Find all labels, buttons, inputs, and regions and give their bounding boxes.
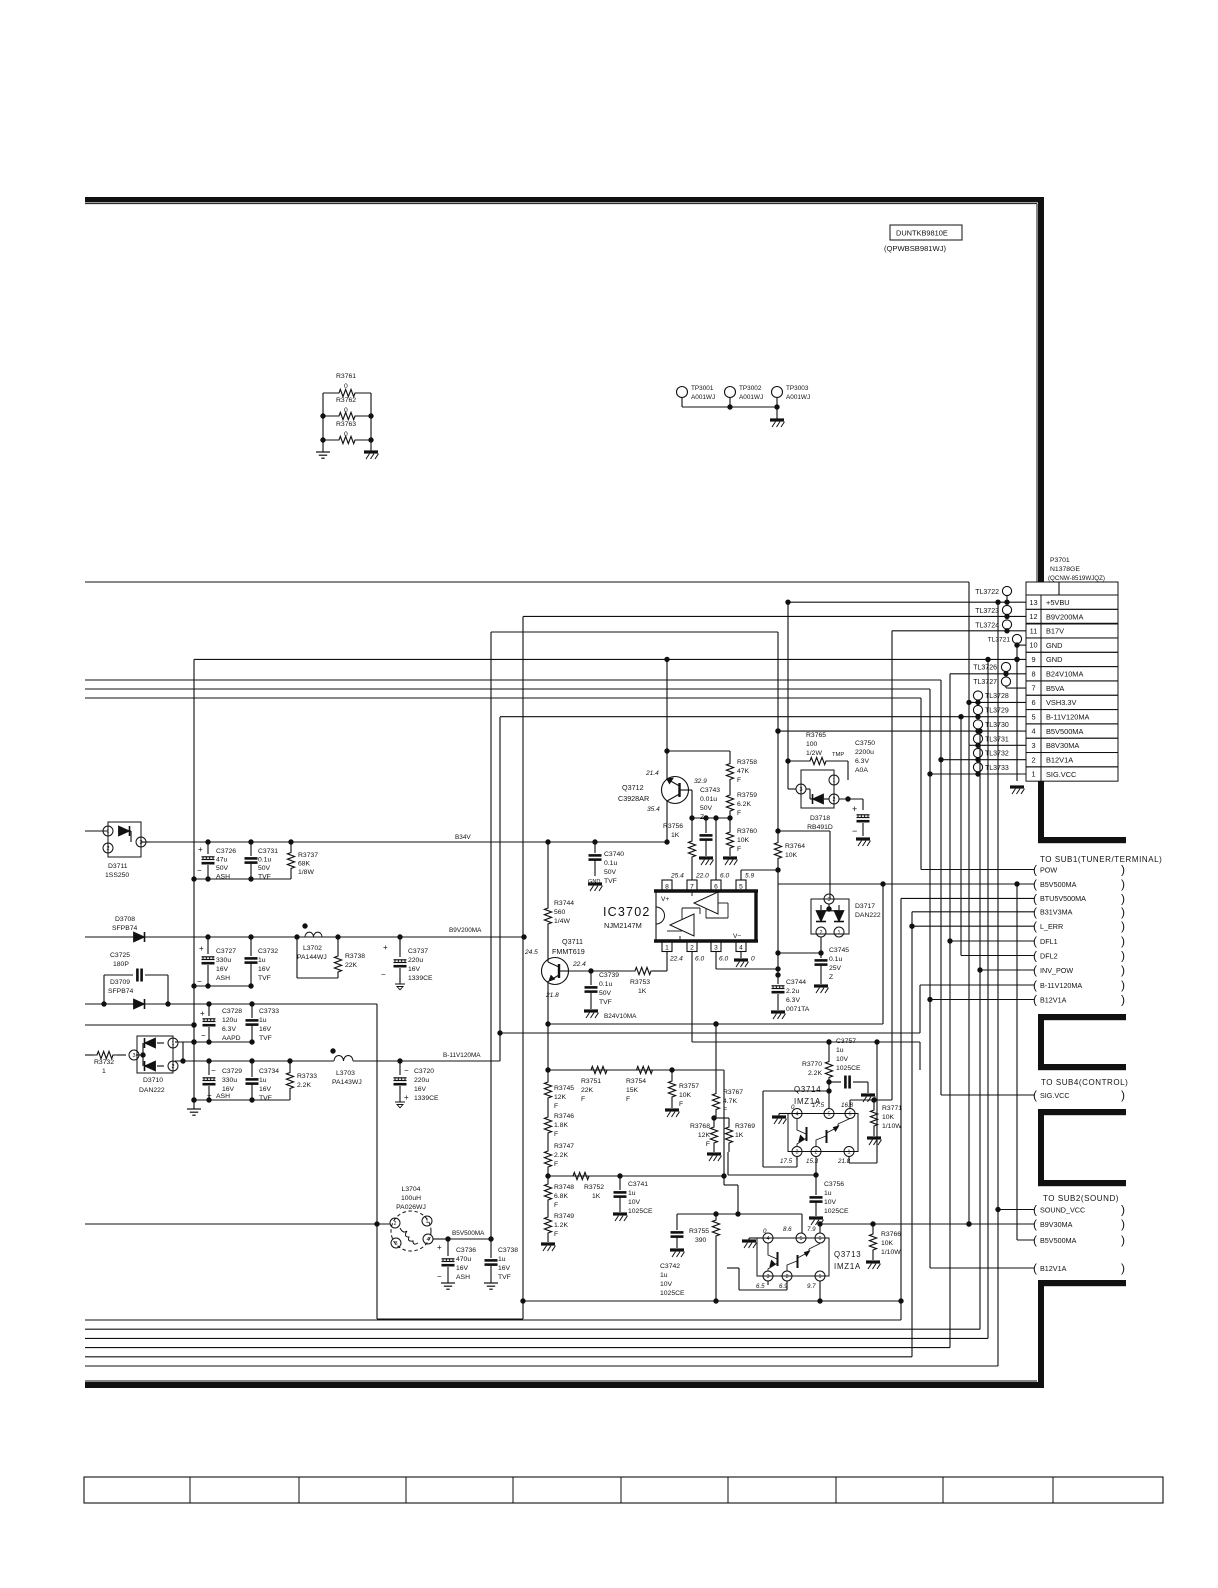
svg-text:5: 5 <box>800 1236 803 1242</box>
svg-text:25V: 25V <box>829 965 842 972</box>
svg-text:16V: 16V <box>258 966 271 973</box>
svg-text:2: 2 <box>815 1150 818 1156</box>
svg-text:R3733: R3733 <box>297 1073 317 1080</box>
ground below C3744 <box>771 1012 786 1019</box>
svg-text:180P: 180P <box>113 961 129 968</box>
svg-text:B12V1A: B12V1A <box>1040 995 1067 1004</box>
wire B9V200MA rail <box>85 927 526 939</box>
wire pin1 feed <box>928 772 1026 776</box>
svg-text:15.3: 15.3 <box>806 1158 819 1165</box>
wire B12V1A SUB1 row <box>928 997 1034 1001</box>
svg-text:1/2W: 1/2W <box>806 750 822 757</box>
svg-text:): ) <box>1121 934 1125 948</box>
svg-text:GND: GND <box>1046 655 1062 664</box>
svg-text:1K: 1K <box>735 1132 744 1139</box>
svg-text:3: 3 <box>133 1053 136 1059</box>
resistor R3748 6.8K F <box>544 1176 574 1209</box>
svg-text:1u: 1u <box>824 1190 832 1197</box>
ground right of R3763 (chassis) <box>364 452 379 459</box>
svg-text:SFPB74: SFPB74 <box>108 988 134 995</box>
svg-text:B8V30MA: B8V30MA <box>1046 741 1079 750</box>
svg-text:+: + <box>198 845 203 854</box>
testpoint TL3731 <box>973 734 1008 745</box>
svg-text:2: 2 <box>690 944 694 951</box>
svg-text:17.5: 17.5 <box>780 1158 793 1165</box>
svg-text:2.2u: 2.2u <box>786 988 799 995</box>
svg-text:F: F <box>679 1101 683 1108</box>
svg-text:F: F <box>737 846 741 853</box>
resistor R3733 2.2K <box>286 1061 317 1100</box>
capacitor C3720 <box>394 1061 440 1102</box>
wire D3709 rail <box>85 1002 377 1224</box>
svg-text:Q3713: Q3713 <box>834 1250 861 1259</box>
svg-text:560: 560 <box>554 909 566 916</box>
svg-text:10V: 10V <box>824 1199 837 1206</box>
wire bus v901 BTU net <box>85 898 901 1320</box>
svg-text:6.3V: 6.3V <box>222 1026 236 1033</box>
ground below R3768 <box>707 1154 722 1161</box>
svg-text:): ) <box>1121 1233 1125 1247</box>
svg-text:−: − <box>211 1066 216 1075</box>
svg-text:6: 6 <box>1031 698 1035 707</box>
svg-text:TVF: TVF <box>259 1035 272 1042</box>
svg-text:1: 1 <box>838 930 841 936</box>
capacitor C3732 <box>245 937 279 986</box>
svg-text:DUNTKB9810E: DUNTKB9810E <box>896 229 948 238</box>
capacitor C3744 <box>772 975 810 1013</box>
svg-text:1339CE: 1339CE <box>408 975 433 982</box>
svg-text:B5V500MA: B5V500MA <box>1040 1236 1077 1245</box>
ground left bus <box>187 1109 201 1115</box>
svg-text:): ) <box>1121 1088 1125 1102</box>
svg-text:): ) <box>1121 1261 1125 1275</box>
inductor L3704 100uH PA026WJ <box>390 1186 433 1251</box>
wire D3711 pin3 to B34V rail <box>141 841 150 843</box>
svg-text:1/8W: 1/8W <box>298 869 314 876</box>
svg-text:C3928AR: C3928AR <box>618 794 649 803</box>
svg-text:R3744: R3744 <box>554 900 574 907</box>
capacitor C3727 <box>197 937 236 986</box>
svg-text:): ) <box>1121 1217 1125 1231</box>
wire B5V500MA rail pin4 <box>776 729 1026 733</box>
svg-text:1K: 1K <box>638 988 647 995</box>
wire Q3713 pin1 bottom <box>819 1281 821 1301</box>
wire B34V rail <box>150 834 669 844</box>
svg-text:−: − <box>197 866 202 875</box>
svg-text:IC3702: IC3702 <box>603 905 651 919</box>
svg-text:(QCNW-8519WJQZ): (QCNW-8519WJQZ) <box>1048 575 1105 582</box>
svg-text:R3764: R3764 <box>785 843 805 850</box>
svg-text:100uH: 100uH <box>401 1195 421 1202</box>
svg-text:TL3724: TL3724 <box>975 623 999 630</box>
wire R3752 row <box>546 1174 724 1178</box>
ground below C3736 <box>441 1283 455 1289</box>
wire rail to v921 <box>85 697 921 699</box>
svg-text:6: 6 <box>819 1236 822 1242</box>
svg-text:): ) <box>1121 963 1125 977</box>
svg-text:R3732: R3732 <box>94 1059 114 1066</box>
svg-text:V−: V− <box>733 933 741 940</box>
ground below C3756 <box>809 1218 824 1225</box>
ground below IC pin4 <box>734 952 749 968</box>
svg-text:8: 8 <box>665 884 669 891</box>
svg-text:PA026WJ: PA026WJ <box>396 1204 426 1211</box>
svg-text:GND: GND <box>1046 641 1062 650</box>
svg-text:B24V10MA: B24V10MA <box>604 1013 637 1020</box>
svg-text:TL3729: TL3729 <box>985 708 1009 715</box>
label TO SUB2(SOUND) <box>1043 1194 1119 1203</box>
transistor Q3711 FMMT619 <box>524 937 586 1024</box>
svg-text:21.4: 21.4 <box>645 770 659 777</box>
wire R3745 top rail2 <box>546 1068 738 1214</box>
svg-text:22K: 22K <box>581 1087 594 1094</box>
testpoint TP3002 <box>725 385 764 407</box>
svg-text:6.0: 6.0 <box>695 956 704 963</box>
svg-text:A001WJ: A001WJ <box>739 394 763 401</box>
ground below R3760 <box>723 858 738 865</box>
resistor R3755 390 <box>689 1214 720 1301</box>
wire pin3 down <box>716 952 780 972</box>
svg-text:R3752: R3752 <box>584 1184 604 1191</box>
wire block corner above TO SUB1 <box>1038 837 1126 843</box>
svg-text:220u: 220u <box>408 957 423 964</box>
ground below R3766 <box>866 1262 881 1269</box>
svg-text:L_ERR: L_ERR <box>1040 922 1063 931</box>
svg-text:0: 0 <box>763 1228 767 1235</box>
svg-text:Z: Z <box>700 814 704 821</box>
svg-text:(: ( <box>1033 963 1037 977</box>
svg-text:B-11V120MA: B-11V120MA <box>1046 713 1089 722</box>
capacitor C3734 <box>246 1061 280 1102</box>
capacitor C3733 <box>246 1004 280 1042</box>
svg-text:F: F <box>581 1096 585 1103</box>
svg-text:B-11V120MA: B-11V120MA <box>443 1052 481 1059</box>
wire D3710 pin1 right <box>175 1041 178 1043</box>
wire v491 <box>490 632 492 1239</box>
resistor R3764 10K <box>774 831 805 870</box>
svg-text:(: ( <box>1033 934 1037 948</box>
svg-text:2: 2 <box>786 1274 789 1280</box>
svg-text:Q3712: Q3712 <box>622 783 644 792</box>
label TO SUB4(CONTROL) <box>1041 1078 1128 1087</box>
svg-text:B5VA: B5VA <box>1046 684 1064 693</box>
wire right border upper segment <box>1037 197 1044 582</box>
svg-text:1025CE: 1025CE <box>628 1208 653 1215</box>
ground below C3741 <box>613 1214 628 1221</box>
svg-text:16V: 16V <box>414 1086 427 1093</box>
svg-text:L3703: L3703 <box>336 1070 355 1077</box>
ground below C3742 <box>670 1250 685 1257</box>
resistor R3765 100 1/2W <box>788 732 848 780</box>
wire B-11V link line <box>500 985 1034 1033</box>
capacitor C3750 2200u <box>852 740 875 836</box>
wire Q3714 pin3 stub <box>796 1157 798 1161</box>
svg-text:C3744: C3744 <box>786 979 806 986</box>
op-amp IC3702 NJM2147M <box>603 891 758 941</box>
svg-text:1: 1 <box>172 1041 175 1047</box>
wire TL3721 vertical to ground <box>1015 645 1019 781</box>
svg-text:2: 2 <box>1031 755 1035 764</box>
svg-text:330u: 330u <box>216 957 231 964</box>
svg-text:B31V3MA: B31V3MA <box>1040 908 1073 917</box>
capacitor C3743 <box>700 787 721 856</box>
wire base rail to R3759 junction <box>692 816 732 820</box>
resistor R3762 <box>321 397 373 420</box>
label P3701 N1378GE <box>1048 557 1105 582</box>
wire B9V30MA row rail <box>820 1222 1034 1226</box>
svg-text:47K: 47K <box>737 768 750 775</box>
svg-text:+: + <box>404 1093 409 1102</box>
svg-text:TVF: TVF <box>498 1274 511 1281</box>
svg-text:RB491D: RB491D <box>807 824 833 831</box>
svg-text:35.4: 35.4 <box>647 806 660 813</box>
wire B-11V rail <box>175 1052 500 1063</box>
svg-text:47u: 47u <box>216 857 228 864</box>
svg-text:R3738: R3738 <box>345 953 365 960</box>
svg-text:R3754: R3754 <box>626 1078 646 1085</box>
svg-text:Z: Z <box>829 974 833 981</box>
svg-text:−: − <box>197 977 202 986</box>
svg-text:SOUND_VCC: SOUND_VCC <box>1040 1205 1085 1214</box>
wire bus v998 SOUND_VCC <box>85 602 1000 1366</box>
svg-text:15K: 15K <box>626 1087 639 1094</box>
wire bus v969 pin3 lower segment <box>967 745 971 1226</box>
svg-text:ASH: ASH <box>456 1274 470 1281</box>
ground below R3757 <box>665 1110 680 1117</box>
svg-text:4: 4 <box>1031 727 1035 736</box>
wire Q3714 pin1 stub <box>849 1040 879 1163</box>
ground left of Q3713 pin4 <box>742 1238 763 1248</box>
svg-text:10K: 10K <box>737 837 750 844</box>
diode D3711 1SS250 <box>103 822 146 879</box>
svg-text:R3746: R3746 <box>554 1113 574 1120</box>
capacitor C3738 <box>485 1239 519 1283</box>
node SIG.VCC row <box>1033 1088 1125 1102</box>
wire right border below connector <box>1038 781 1044 843</box>
svg-text:R3769: R3769 <box>735 1123 755 1130</box>
svg-text:−: − <box>437 1272 442 1281</box>
svg-text:10K: 10K <box>679 1092 692 1099</box>
diode D3718 RB491D <box>796 770 839 831</box>
svg-text:4.7K: 4.7K <box>723 1098 737 1105</box>
svg-text:TL3726: TL3726 <box>973 665 997 672</box>
svg-text:VSH3.3V: VSH3.3V <box>1046 698 1076 707</box>
svg-text:4: 4 <box>427 1237 430 1243</box>
svg-text:TL3723: TL3723 <box>975 608 999 615</box>
testpoint TL3728 <box>973 691 1008 702</box>
svg-text:1SS250: 1SS250 <box>105 872 129 879</box>
svg-text:B9V30MA: B9V30MA <box>1040 1220 1073 1229</box>
svg-text:F: F <box>554 1161 558 1168</box>
wire bus v930 B12V1A SUB2 <box>930 689 1034 1268</box>
svg-text:R3767: R3767 <box>723 1089 743 1096</box>
svg-text:R3745: R3745 <box>554 1085 574 1092</box>
wire C3728 feed rail <box>85 1023 196 1027</box>
resistor R3758 47K F <box>726 755 757 788</box>
svg-text:1: 1 <box>1031 770 1035 779</box>
svg-text:6.0: 6.0 <box>719 956 728 963</box>
svg-text:C3731: C3731 <box>258 848 278 855</box>
resistor R3752 1K <box>566 1172 604 1200</box>
svg-text:2.2K: 2.2K <box>554 1152 568 1159</box>
ground below C3738 <box>484 1283 498 1289</box>
wire R3753 to pin1 <box>652 951 667 971</box>
svg-text:1025CE: 1025CE <box>660 1290 685 1297</box>
wire pin6 vertical <box>715 818 717 880</box>
wire R3769 bottom route <box>728 1152 816 1175</box>
svg-text:100: 100 <box>806 741 818 748</box>
resistor R3756 1K <box>663 818 696 880</box>
svg-text:0071TA: 0071TA <box>786 1006 810 1013</box>
wire bus v950 DFL1 <box>85 674 952 1348</box>
svg-text:N1378GE: N1378GE <box>1050 566 1080 573</box>
svg-text:50V: 50V <box>604 869 617 876</box>
ground below R3749 <box>541 1244 556 1251</box>
wire B17V pin11 feed <box>892 629 1026 633</box>
svg-text:+: + <box>200 1009 205 1018</box>
svg-text:10K: 10K <box>881 1240 894 1247</box>
svg-text:16V: 16V <box>222 1086 235 1093</box>
capacitor C3745 <box>815 947 850 984</box>
svg-text:Q3714: Q3714 <box>794 1085 821 1094</box>
svg-text:): ) <box>1121 877 1125 891</box>
svg-text:C3733: C3733 <box>259 1008 279 1015</box>
diode D3717 DAN222 <box>811 894 881 937</box>
wire block below SUB2 joining bottom border <box>1038 1280 1126 1388</box>
ground below C3739 <box>584 1011 599 1018</box>
wire bus v988 staircase <box>85 659 988 1338</box>
svg-text:(: ( <box>1033 905 1037 919</box>
svg-text:17.5: 17.5 <box>812 1102 825 1109</box>
svg-text:22.0: 22.0 <box>695 873 709 880</box>
svg-text:R3758: R3758 <box>737 759 757 766</box>
svg-text:1u: 1u <box>258 957 266 964</box>
svg-text:B34V: B34V <box>455 834 471 841</box>
capacitor C3740 <box>588 842 624 891</box>
svg-text:): ) <box>1121 919 1125 933</box>
testpoint TL3722 <box>975 586 1011 602</box>
svg-text:F: F <box>737 810 741 817</box>
svg-text:3: 3 <box>767 1274 770 1280</box>
svg-text:ASH: ASH <box>216 975 230 982</box>
svg-text:R3737: R3737 <box>298 852 318 859</box>
svg-text:B9V200MA: B9V200MA <box>449 927 482 934</box>
svg-text:+: + <box>383 943 388 952</box>
svg-text:−: − <box>404 1066 409 1075</box>
svg-text:6.5: 6.5 <box>756 1283 765 1290</box>
svg-text:D3708: D3708 <box>115 916 135 923</box>
svg-text:TL3721: TL3721 <box>988 637 1011 644</box>
svg-text:R3760: R3760 <box>737 828 757 835</box>
svg-text:): ) <box>1121 1203 1125 1217</box>
wire top border (board outline) <box>85 197 1044 204</box>
svg-text:10K: 10K <box>785 852 798 859</box>
svg-text:2: 2 <box>107 846 110 852</box>
wire C3726 group bottom rail <box>192 877 291 881</box>
svg-text:6.2K: 6.2K <box>737 801 751 808</box>
svg-text:16V: 16V <box>259 1026 272 1033</box>
wire ground bus left <box>192 659 196 1109</box>
svg-text:C3745: C3745 <box>829 947 849 954</box>
svg-text:16V: 16V <box>408 966 421 973</box>
svg-text:1: 1 <box>426 1219 429 1225</box>
wire bus v912 B31 net <box>85 912 912 1357</box>
svg-text:1u: 1u <box>259 1017 267 1024</box>
svg-text:1: 1 <box>819 1274 822 1280</box>
testpoint TL3733 <box>973 763 1008 774</box>
testpoint TL3727 <box>973 677 1026 688</box>
svg-text:B24V10MA: B24V10MA <box>1046 670 1083 679</box>
svg-text:6: 6 <box>714 884 718 891</box>
svg-text:TP3002: TP3002 <box>739 385 762 392</box>
svg-text:1/10W: 1/10W <box>882 1123 902 1130</box>
svg-text:R3756: R3756 <box>663 823 683 830</box>
svg-text:R3749: R3749 <box>554 1213 574 1220</box>
svg-text:R3771: R3771 <box>882 1105 902 1112</box>
resistor R3747 2.2K F <box>544 1140 574 1178</box>
svg-text:(: ( <box>1033 993 1037 1007</box>
ground below C3720 <box>395 1102 405 1108</box>
ground below C3737 <box>395 984 405 990</box>
svg-text:TL3727: TL3727 <box>973 679 997 686</box>
resistor R3754 15K F <box>626 1066 660 1103</box>
svg-text:1u: 1u <box>628 1190 636 1197</box>
svg-text:0.01u: 0.01u <box>700 796 717 803</box>
svg-text:0: 0 <box>791 1104 795 1111</box>
wire R3758 top feed <box>667 751 730 755</box>
wire v500 B-11V pin5 riser <box>498 717 502 1061</box>
wire R3764 bottom down <box>776 870 780 977</box>
svg-text:0.1u: 0.1u <box>599 981 612 988</box>
svg-text:1: 1 <box>665 944 669 951</box>
svg-text:1u: 1u <box>259 1077 267 1084</box>
svg-text:R3762: R3762 <box>336 397 356 404</box>
svg-text:C3732: C3732 <box>258 948 278 955</box>
svg-text:C3740: C3740 <box>604 851 624 858</box>
svg-text:C3720: C3720 <box>414 1068 434 1075</box>
svg-text:DFL2: DFL2 <box>1040 951 1058 960</box>
wire C3742 top row <box>677 1212 802 1233</box>
svg-text:R3747: R3747 <box>554 1143 574 1150</box>
wire SOUND_VCC row feed <box>998 1209 1034 1211</box>
svg-text:C3742: C3742 <box>660 1263 680 1270</box>
svg-text:V+: V+ <box>661 896 669 903</box>
svg-text:FMMT619: FMMT619 <box>552 947 585 956</box>
svg-text:9.7: 9.7 <box>807 1283 816 1290</box>
diode D3708 SFPB74 <box>112 916 145 942</box>
capacitor C3741 <box>614 1176 654 1215</box>
svg-text:7.9: 7.9 <box>807 1226 816 1233</box>
wire Q3714 pin2 down to C3756 <box>814 1157 818 1182</box>
wire box bottom <box>521 1299 903 1303</box>
svg-text:B9V200MA: B9V200MA <box>1046 612 1083 621</box>
svg-text:A001WJ: A001WJ <box>691 394 715 401</box>
svg-text:TMP: TMP <box>832 752 844 758</box>
wire pin3 feed <box>969 743 1026 747</box>
svg-text:2: 2 <box>394 1221 397 1227</box>
svg-text:1: 1 <box>107 829 110 835</box>
svg-text:120u: 120u <box>222 1017 237 1024</box>
svg-text:B5V500MA: B5V500MA <box>1046 727 1083 736</box>
svg-text:0.1u: 0.1u <box>604 860 617 867</box>
capacitor C3742 <box>660 1214 685 1297</box>
svg-text:PA144WJ: PA144WJ <box>297 954 327 961</box>
ground below TP3003 <box>770 420 785 427</box>
svg-text:TP3001: TP3001 <box>691 385 714 392</box>
wire rail to v930 <box>85 688 930 690</box>
wire Q3714 pin6 to R3771 <box>850 1098 892 1109</box>
connector P3701 table <box>1026 582 1118 781</box>
